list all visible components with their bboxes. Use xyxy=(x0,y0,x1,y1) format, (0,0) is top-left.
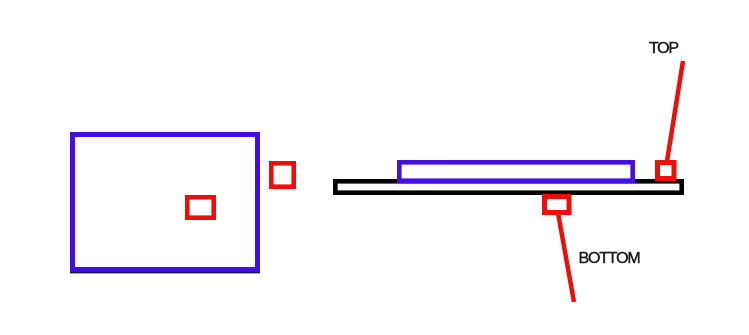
leader line to BOTTOM marker xyxy=(558,213,574,302)
svg-text:TOP: TOP xyxy=(649,40,678,57)
base plate (side view) xyxy=(335,181,681,192)
TOP pad marker (side view) xyxy=(658,163,675,179)
board outline U1 (plan view) xyxy=(73,135,258,270)
board slab (side view) xyxy=(399,162,632,180)
pad marker R2 (right of board, plan view) xyxy=(271,163,293,186)
BOTTOM pad marker (side view) xyxy=(545,197,570,213)
pad marker R1 (inside board, plan view) xyxy=(187,197,213,217)
shadow line under board outline bottom edge xyxy=(70,272,260,274)
svg-text:BOTTOM: BOTTOM xyxy=(579,250,641,267)
leader line to TOP marker xyxy=(667,61,683,161)
